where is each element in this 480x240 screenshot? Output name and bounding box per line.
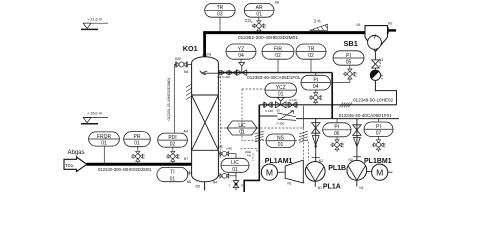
svg-text:CO2: CO2 [245, 18, 253, 24]
instrument PR 01 [124, 132, 151, 163]
flange ticks on N1 [202, 54, 207, 56]
svg-text:N1: N1 [318, 186, 322, 190]
instrument PI 07 [364, 119, 393, 152]
off-page connector T01 [64, 157, 87, 172]
instrument TI 01 [157, 167, 192, 182]
flow restrictor F400 [277, 109, 297, 126]
signal line NS to pump [295, 141, 309, 161]
valve S140 [263, 102, 273, 113]
svg-text:25: 25 [277, 109, 281, 113]
svg-text:TR: TR [308, 46, 315, 52]
svg-text:N1: N1 [207, 53, 211, 57]
svg-text:01: 01 [278, 142, 284, 148]
svg-text:01: 01 [101, 140, 107, 146]
svg-text:012352-200-40HE02D2M01: 012352-200-40HE02D2M01 [238, 35, 298, 41]
pump PL1B motor M [364, 158, 393, 180]
instrument PI 04 [301, 73, 331, 105]
svg-text:N1: N1 [359, 186, 363, 190]
elevation marker +21,5 m [81, 17, 108, 29]
pump A discharge riser with valves [312, 119, 320, 162]
interlock NS 01 [266, 134, 295, 148]
slope hatch on suction header [255, 131, 264, 142]
spray nozzle inside KO1 [200, 71, 219, 75]
svg-text:07: 07 [376, 131, 382, 137]
recycle pipe 012346-40 [296, 118, 399, 120]
svg-text:S 145: S 145 [289, 98, 297, 102]
svg-text:012354-25-40HE02D2M01: 012354-25-40HE02D2M01 [167, 78, 171, 121]
svg-text:01: 01 [134, 141, 140, 147]
signal line UC to coupling drop [257, 127, 303, 129]
svg-text:F 400: F 400 [277, 121, 285, 125]
pipe 012354-25 standpipe to PDI [167, 65, 175, 134]
svg-text:M: M [266, 167, 273, 177]
svg-text:AH: AH [183, 130, 188, 134]
instrument FRQR 01 [89, 132, 120, 163]
drain valve under LIC (black) [229, 176, 243, 191]
top gas pipe 012352-200 (bold) [203, 31, 365, 34]
instrument LIC 01 [221, 150, 251, 173]
svg-text:012349-50-10HE02: 012349-50-10HE02 [353, 97, 394, 102]
pump PL1A [305, 158, 341, 191]
svg-text:N1: N1 [356, 23, 360, 27]
svg-text:FRQR: FRQR [97, 134, 112, 140]
svg-text:PR: PR [134, 134, 141, 140]
suction header pipe (bold) [244, 105, 259, 192]
pump B discharge riser with valves [353, 119, 361, 161]
pump PL1A motor M [261, 158, 292, 180]
svg-text:FIR: FIR [274, 46, 282, 52]
svg-text:+ 16,0 m: + 16,0 m [87, 112, 102, 116]
vessel wall hatch ticks [186, 84, 192, 100]
svg-text:012346-40-40CA05D1F01: 012346-40-40CA05D1F01 [339, 113, 392, 118]
control valve YCZ [275, 97, 286, 107]
signal line LIC to UC [220, 70, 222, 158]
instrument PI 06 [323, 119, 351, 152]
svg-text:AH: AH [275, 0, 280, 4]
svg-text:S 140: S 140 [265, 109, 273, 113]
elevation marker +16,0 m [81, 112, 108, 124]
drain pipe from trap [375, 81, 396, 105]
valve H60 [217, 70, 236, 79]
svg-text:YZ: YZ [238, 46, 244, 52]
svg-text:S 05: S 05 [380, 74, 384, 80]
svg-text:PI: PI [376, 124, 381, 130]
svg-text:T01: T01 [65, 163, 74, 169]
node N3 valve H40 [218, 145, 236, 158]
svg-text:H40: H40 [227, 146, 233, 150]
svg-text:04: 04 [238, 53, 244, 59]
node N1 riser (bold) [203, 31, 206, 57]
instrument PDI 02 with AH alarm [158, 130, 189, 163]
signal line to YCZ [242, 88, 265, 90]
pump PL1B [328, 157, 366, 190]
svg-text:PI: PI [313, 78, 318, 84]
svg-text:N2: N2 [349, 158, 353, 162]
instrument PI 05 [332, 51, 364, 83]
main gas pipe 012340-300 (bold) [87, 163, 192, 166]
instrument AR 01 with AH alarm [244, 0, 280, 31]
valve R20 under SB1 [372, 60, 383, 68]
valve H30 [175, 57, 192, 74]
controller UC 01 hexagon [227, 121, 257, 136]
slope hatch on 012349 pipe [340, 103, 352, 108]
svg-text:02: 02 [308, 53, 314, 59]
signal line LIC alarm stub [252, 154, 254, 162]
control valve YZ on wash pipe [237, 62, 247, 75]
svg-text:02: 02 [170, 141, 176, 147]
svg-text:012350-40-40CA05D1F01: 012350-40-40CA05D1F01 [247, 75, 300, 80]
svg-text:TI: TI [170, 170, 174, 176]
signal line alarm dashes [241, 148, 258, 152]
svg-text:PL1B: PL1B [328, 165, 346, 172]
node N5 drain line [204, 182, 206, 191]
svg-text:02: 02 [275, 53, 281, 59]
instrument TR 03 [205, 3, 235, 31]
svg-text:YCZ: YCZ [276, 85, 286, 91]
svg-text:N8: N8 [184, 70, 188, 74]
svg-text:06: 06 [334, 131, 340, 137]
svg-text:N2: N2 [319, 159, 323, 163]
svg-text:N4: N4 [213, 181, 217, 185]
svg-text:PL1A: PL1A [323, 184, 341, 191]
svg-text:R: R [241, 183, 243, 187]
svg-text:N5: N5 [196, 185, 200, 189]
sample point symbol [252, 21, 266, 31]
slope hatch on coupling drop [299, 131, 308, 142]
condensate trap [370, 68, 384, 81]
pipe 012349-50 with valves [259, 104, 396, 106]
svg-text:N2: N2 [388, 22, 392, 26]
svg-text:R 20: R 20 [378, 60, 382, 66]
node N3 under SB1 [375, 52, 383, 62]
svg-text:PI: PI [346, 53, 351, 59]
svg-text:01: 01 [232, 167, 238, 173]
signal line sample to NS [242, 89, 266, 141]
vessel KO1 [183, 44, 219, 182]
svg-text:F H60: F H60 [222, 75, 231, 79]
svg-text:01: 01 [170, 176, 176, 182]
svg-text:N6: N6 [187, 180, 191, 184]
svg-text:N1: N1 [288, 182, 292, 186]
svg-text:04: 04 [313, 84, 319, 90]
svg-text:Y: Y [229, 183, 231, 187]
svg-text:H30: H30 [175, 57, 181, 61]
svg-text:3 %: 3 % [314, 19, 321, 24]
instrument YZ 04 [226, 44, 256, 62]
svg-text:AR: AR [256, 5, 263, 11]
svg-text:01: 01 [256, 12, 262, 18]
pipe stub after SB1 (bold) [388, 29, 397, 31]
svg-text:NS: NS [277, 136, 285, 142]
svg-text:+ 21,5 m: + 21,5 m [87, 17, 102, 21]
svg-text:01: 01 [278, 92, 284, 98]
svg-text:03: 03 [217, 12, 223, 18]
bold riser pipe at x=332 [331, 73, 333, 119]
svg-text:N7: N7 [184, 157, 188, 161]
svg-text:AH: AH [247, 154, 251, 158]
slope marker 3% [310, 19, 328, 31]
svg-text:SB1: SB1 [344, 39, 358, 48]
svg-text:M: M [376, 167, 383, 177]
instrument YCZ 01 [265, 83, 297, 98]
svg-text:TR: TR [217, 5, 224, 11]
svg-text:PDI: PDI [168, 135, 176, 141]
separator SB1 [344, 22, 393, 52]
instrument TR 02 [296, 44, 326, 73]
instrument FIR 02 [262, 44, 294, 73]
valve S145 [288, 98, 297, 108]
svg-text:012340-300-40HE02D2M01: 012340-300-40HE02D2M01 [98, 167, 152, 172]
node N4 valve H41 [213, 170, 236, 185]
svg-text:05: 05 [346, 59, 352, 65]
svg-text:PI: PI [334, 125, 339, 131]
svg-text:Abgas: Abgas [68, 150, 85, 156]
pump PL1A gear coupling [285, 160, 303, 186]
wash water pipe 012350-40 [218, 72, 332, 74]
svg-text:KO1: KO1 [183, 44, 198, 53]
node N6 [187, 171, 191, 184]
svg-text:LIC: LIC [231, 160, 239, 166]
